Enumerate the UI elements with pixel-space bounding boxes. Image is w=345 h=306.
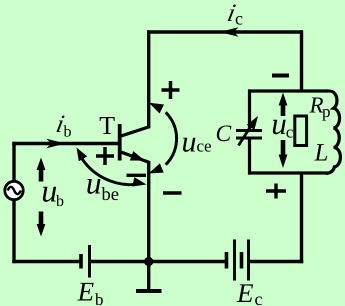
label u_c [273,120,286,135]
label C [217,125,232,141]
arrow u_b down [39,212,44,227]
wire: left vertical wire upper part [12,142,15,182]
label i_c [228,4,236,21]
battery E_c cell2 short plate [240,252,244,269]
label R_p [309,97,323,112]
plus sign (u_be base side) [96,147,114,165]
label L [314,144,327,160]
battery E_c cell1 long plate [233,240,236,281]
resistor R_p box [295,116,307,146]
inductor L coil (right branch of tank) [326,91,340,174]
ground bar [136,289,162,293]
battery E_b long plate [88,245,91,278]
label u_ce [183,138,195,152]
junction dot (emitter / ground node) [144,257,153,266]
battery E_c cell2 long plate [247,240,250,281]
tank left branch lower wire [248,138,251,175]
AC source circle [5,181,23,199]
minus sign (u_ce emitter side) [163,191,182,194]
variable capacitor C bottom plate [236,137,262,140]
variable capacitor arrow [239,124,253,146]
wire: bottom wire right segment [249,260,304,263]
wire: bottom wire middle segment [90,260,226,263]
wire: collector vertical [147,30,150,128]
arrow u_b up [39,167,44,182]
minus sign (u_c top) [272,74,289,78]
battery E_b short plate [79,254,83,269]
wire: top wire from collector node to tank [147,30,303,33]
wire: right vertical wire from top wire down to tank top [300,30,303,92]
label E_b [77,283,93,301]
tank box bottom edge [248,171,328,174]
label T [100,117,115,134]
wire: bottom wire left segment [12,260,81,263]
transistor T: base bar [118,124,122,161]
arrow u_c up [281,103,286,117]
plus sign (u_ce collector side) [162,81,180,99]
minus sign (u_be emitter side) [127,174,147,177]
variable capacitor C top plate [236,129,262,132]
transistor emitter arrow (NPN) [130,151,145,161]
label u_be [87,179,100,194]
tank left branch upper wire [248,89,251,130]
arrow i_c (collector current, pointing left) [220,27,239,37]
arrow u_c down [281,140,286,155]
label E_c [237,284,253,302]
u_ce curved arrow [166,112,177,164]
wire: base lead [12,142,118,145]
u_be curved arrow [80,156,137,185]
transistor collector lead (diagonal) [120,127,151,137]
tank box top edge [248,89,328,92]
ground stem [147,262,150,290]
AC source sine wave [8,187,21,194]
wire: left vertical wire lower part [12,200,15,264]
label u_b [43,187,56,202]
wire: emitter vertical [147,161,150,263]
battery E_c cell1 short plate [225,252,229,269]
wire: right vertical wire below tank to bottom wire [300,173,303,263]
plus sign (u_c bottom) [266,184,286,199]
label i_b [56,115,64,132]
arrow i_b (base current, pointing right) [47,139,66,148]
transistor emitter lead (diagonal) [120,152,150,163]
